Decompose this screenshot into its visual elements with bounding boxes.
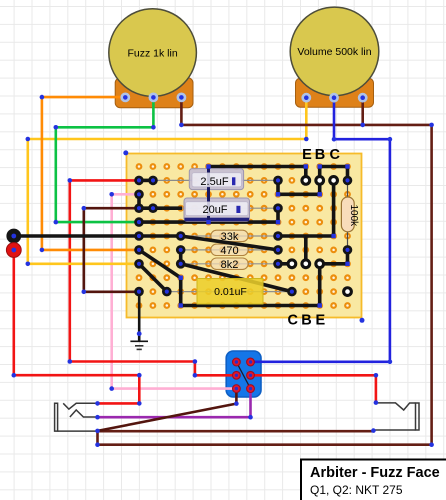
wire Q1 base up col13 bbox=[304, 236, 308, 264]
perfboard bbox=[127, 154, 362, 318]
capacitor C1 2.5uF body bbox=[189, 169, 243, 190]
wire red output: switch lug B2 to right jack tip bbox=[251, 375, 376, 402]
transistor Q1 pin C bbox=[287, 258, 298, 269]
switch S1 pole line bbox=[236, 362, 250, 389]
svg-text:Fuzz 1k lin: Fuzz 1k lin bbox=[128, 47, 178, 59]
resistor R1 33k bbox=[211, 230, 248, 243]
jack J1 input stereo bbox=[55, 403, 98, 431]
wire bottom row11 bbox=[181, 304, 320, 308]
wire brown diagonal jack sleeve to switch lug A3 bbox=[98, 389, 237, 431]
svg-text:Arbiter - Fuzz Face: Arbiter - Fuzz Face bbox=[310, 465, 440, 481]
wire corner dots bbox=[12, 95, 434, 447]
wire board row1 right segment bbox=[320, 165, 348, 169]
potentiometer VR1 lugs bbox=[120, 93, 186, 103]
svg-text:100k: 100k bbox=[348, 204, 359, 227]
node board corner bottom-right bbox=[360, 318, 365, 323]
capacitor C3 0.01uF bbox=[197, 279, 263, 305]
capacitor C2 20uF label bbox=[186, 202, 249, 216]
transistor Q1 pin E bbox=[314, 258, 325, 269]
wire diagonal col4r6 to col11r7 bbox=[181, 236, 278, 250]
svg-text:Volume 500k lin: Volume 500k lin bbox=[297, 46, 371, 58]
switch S1 DPDT body bbox=[226, 351, 261, 397]
wire brown branch volume lug3 bbox=[361, 98, 364, 125]
title box bbox=[301, 460, 446, 500]
svg-text:20uF: 20uF bbox=[202, 204, 227, 216]
svg-text:2.5uF: 2.5uF bbox=[200, 176, 228, 188]
wire brown: fuzz lug3 volume lug3 jacks sleeve net bbox=[98, 97, 432, 444]
wire Q1 emitter down col14 bbox=[318, 264, 322, 306]
potentiometer VR1 Fuzz 1k lin bbox=[109, 9, 197, 108]
spare eyelet bbox=[342, 286, 353, 297]
wire Q2 base up bbox=[318, 167, 322, 181]
svg-text:E: E bbox=[302, 147, 312, 163]
wire ground stem bbox=[138, 292, 141, 341]
wire row5 to 20uF plus bbox=[139, 208, 278, 222]
node ground wire end bbox=[137, 331, 142, 336]
svg-text:470: 470 bbox=[220, 245, 238, 257]
wire ground bus row6 from pad bbox=[14, 234, 181, 238]
capacitor C1 2.5uF lead bbox=[153, 179, 278, 181]
svg-text:C: C bbox=[330, 147, 341, 163]
wire Q2 collector down col15 bbox=[332, 180, 336, 236]
transistor Q1 pin B bbox=[300, 258, 311, 269]
wire Q1 emitter to 100k bottom bbox=[320, 250, 348, 264]
transistor Q2 pin C bbox=[328, 175, 339, 186]
junction terminals with blue centers bbox=[134, 176, 352, 297]
wire col1 vertical rows3-4 bbox=[137, 194, 141, 208]
potentiometer VR2 Volume 500k lin bbox=[290, 7, 379, 107]
capacitor C3 0.01uF lead bbox=[167, 291, 292, 293]
wire orange: fuzz lug1 to board row7 bbox=[42, 97, 139, 250]
resistor R4 100k lead bbox=[347, 180, 349, 250]
wire diagonal col1r8 to col3r10 bbox=[139, 264, 167, 292]
wire purple: jack ring to switch lug B3 bbox=[98, 389, 251, 418]
svg-text:B: B bbox=[301, 313, 311, 329]
svg-text:8k2: 8k2 bbox=[221, 259, 239, 271]
wire 8k2 to Q1 collector bbox=[278, 262, 292, 266]
wire dark maroon jumper: board row4 to board row10 bbox=[84, 208, 139, 292]
svg-text:0.01uF: 0.01uF bbox=[214, 286, 247, 298]
node input pad black bbox=[6, 229, 21, 244]
wire col4 rows7-8 bbox=[179, 250, 183, 264]
transistor Q2 pin B bbox=[314, 175, 325, 186]
resistor R3 8k2 bbox=[211, 258, 248, 271]
wire brown jack sleeve to right jack bbox=[98, 430, 374, 433]
wire board row1 left segment bbox=[209, 165, 306, 169]
wire diagonal col4r8 to col12r10 bbox=[181, 264, 292, 292]
resistor R2 470 bbox=[211, 244, 248, 257]
label Q2 pins E B C bbox=[302, 147, 340, 163]
wire diagonal col1r7 to col4r9 bbox=[139, 250, 181, 278]
wire row2 col1-col2 bbox=[139, 179, 153, 183]
capacitor C2 20uF lead bbox=[153, 207, 278, 209]
jack J2 output mono bbox=[373, 403, 419, 430]
capacitor C1 2.5uF label bbox=[192, 173, 242, 188]
wire 100k top drop bbox=[346, 167, 350, 181]
capacitor C2 20uF body bbox=[184, 198, 250, 221]
perfboard hole grid bbox=[139, 167, 348, 306]
wire blue: volume lug2 to switch lug B1 bbox=[251, 98, 390, 362]
wire Q2 emitter drop bbox=[304, 167, 308, 181]
resistor R4 100k bbox=[341, 197, 359, 232]
wire red input: pad to jack tip bbox=[14, 250, 140, 403]
wire pink: board row3 to switch lug A3 bbox=[112, 194, 237, 388]
wire 2.5uF plus to Q2 base bbox=[278, 180, 320, 194]
ground bbox=[130, 341, 148, 349]
wire row4 col1-col4 bbox=[139, 206, 182, 210]
svg-text:Q1, Q2: NKT 275: Q1, Q2: NKT 275 bbox=[310, 483, 403, 497]
resistor R1 33k lead bbox=[181, 235, 278, 237]
wire endpoint squares bbox=[179, 164, 350, 307]
resistor R2 470 lead bbox=[181, 249, 278, 251]
wire yellow: volume lug1 to board row8 bbox=[28, 98, 307, 264]
potentiometer VR2 lugs bbox=[301, 93, 367, 103]
svg-text:B: B bbox=[315, 147, 325, 163]
resistor R3 8k2 lead bbox=[181, 263, 278, 265]
wire row6 col11-col15 bbox=[278, 234, 334, 238]
label Q1 pins C B E bbox=[288, 313, 326, 329]
svg-text:C: C bbox=[288, 313, 299, 329]
node board corner top-left bbox=[123, 150, 128, 155]
wire red: board row2 to switch lug A2 bbox=[70, 180, 237, 375]
transistor Q2 pin E bbox=[300, 175, 311, 186]
wire navy col6 vertical bbox=[207, 167, 210, 223]
svg-text:E: E bbox=[315, 313, 325, 329]
switch S1 lugs bbox=[233, 358, 255, 392]
wire green: fuzz lug2 to board row5 bbox=[56, 97, 154, 222]
node input pad red bbox=[6, 243, 21, 258]
wire col4 rows9-11 bbox=[179, 278, 183, 306]
